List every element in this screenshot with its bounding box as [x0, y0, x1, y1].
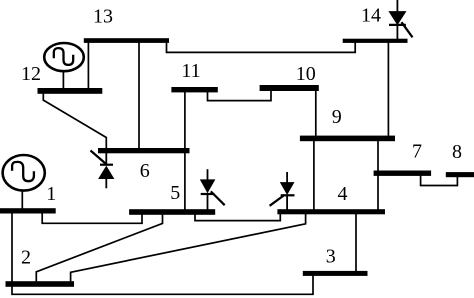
wire bus1-bus5: [42, 210, 142, 223]
SVC thyristor T14 at bus 14: [388, 0, 412, 40]
wire bus14-bus9: [387, 42, 389, 137]
svg-text:7: 7: [412, 140, 422, 162]
svg-text:4: 4: [338, 183, 348, 205]
generator G1: [3, 155, 45, 191]
svg-text:2: 2: [21, 247, 31, 269]
svg-text:3: 3: [326, 246, 336, 268]
svg-text:12: 12: [21, 63, 41, 85]
bus 3: [303, 271, 368, 276]
SVC thyristor T5 at bus 5: [200, 169, 225, 210]
svg-text:8: 8: [452, 141, 462, 163]
bus 14: [343, 39, 408, 43]
wire bus5-bus4: [195, 210, 280, 221]
svg-text:1: 1: [46, 183, 56, 205]
wire gen1 lead: [21, 190, 23, 210]
wire bus2-bus4: [71, 210, 306, 282]
SVC thyristor T4 at bus 4: [270, 172, 295, 210]
svg-text:13: 13: [93, 6, 113, 28]
SVC thyristor T6 at bus 6: [91, 151, 115, 189]
svg-text:9: 9: [332, 106, 342, 128]
svg-text:10: 10: [296, 63, 316, 85]
wire bus2-bus3 bottom: [12, 276, 313, 295]
wire bus1-bus2: [11, 213, 13, 282]
wire bus13-bus6: [138, 42, 140, 149]
wire bus12-bus6: [43, 93, 106, 149]
wire bus13-bus12: [87, 42, 89, 89]
wire gen12 lead: [62, 70, 64, 89]
bus 10: [260, 85, 319, 91]
wire bus13-bus14: [167, 42, 356, 52]
wire bus11-bus6-bus5: [184, 92, 186, 211]
bus 6: [98, 148, 190, 153]
bus 8: [446, 172, 474, 177]
bus 9: [300, 136, 395, 142]
svg-text:11: 11: [181, 60, 200, 82]
bus 1: [0, 208, 56, 213]
wire bus9-bus7-bus4: [377, 140, 379, 210]
svg-text:6: 6: [140, 160, 150, 182]
bus 2: [6, 281, 75, 287]
svg-text:5: 5: [170, 182, 180, 204]
bus 5: [129, 209, 215, 215]
bus 7: [374, 171, 432, 176]
wire bus4-bus3: [355, 213, 357, 272]
wire bus10-bus9: [315, 90, 317, 137]
wire bus9-bus4: [313, 140, 315, 210]
svg-text:14: 14: [361, 5, 381, 27]
bus 11: [171, 87, 217, 92]
bus 13: [84, 38, 169, 43]
wire bus11-bus10: [208, 90, 272, 101]
bus 12: [38, 88, 103, 94]
generator G12: [44, 43, 84, 71]
wire bus2-bus5: [36, 210, 162, 282]
wire bus7-bus8: [421, 175, 458, 186]
bus 4: [277, 209, 385, 214]
